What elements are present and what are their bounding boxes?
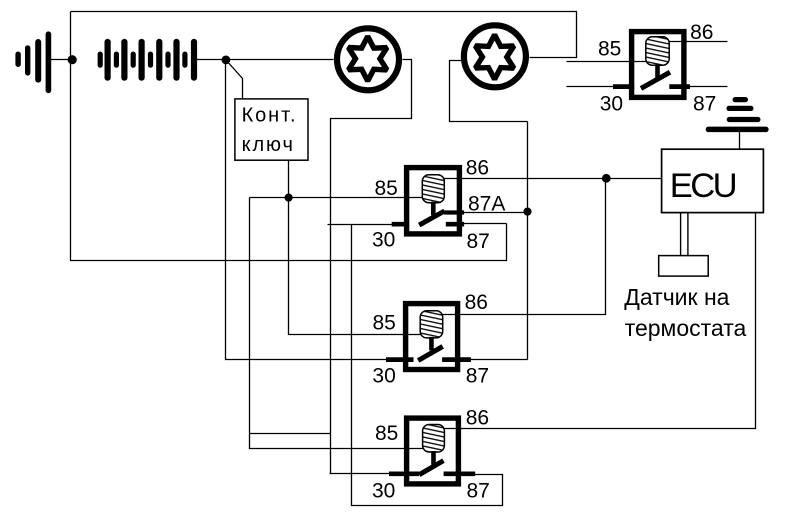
- svg-text:30: 30: [372, 480, 395, 503]
- svg-text:87: 87: [467, 480, 490, 503]
- svg-text:86: 86: [690, 21, 713, 44]
- svg-text:87A: 87A: [468, 193, 505, 216]
- svg-text:ключ: ключ: [242, 134, 295, 156]
- svg-text:86: 86: [466, 407, 489, 430]
- svg-text:Конт.: Конт.: [242, 104, 298, 126]
- svg-text:Датчик на: Датчик на: [624, 284, 729, 310]
- svg-text:30: 30: [600, 93, 623, 116]
- svg-text:87: 87: [466, 365, 489, 388]
- svg-text:86: 86: [466, 157, 489, 180]
- svg-text:85: 85: [598, 38, 621, 61]
- svg-text:85: 85: [375, 177, 398, 200]
- svg-text:30: 30: [372, 228, 395, 251]
- svg-text:85: 85: [375, 422, 398, 445]
- svg-text:87: 87: [467, 230, 490, 253]
- svg-text:85: 85: [373, 312, 396, 335]
- svg-text:87: 87: [693, 93, 716, 116]
- svg-text:86: 86: [465, 291, 488, 314]
- svg-text:30: 30: [372, 365, 395, 388]
- svg-text:термостата: термостата: [625, 315, 747, 341]
- svg-text:ECU: ECU: [670, 167, 736, 205]
